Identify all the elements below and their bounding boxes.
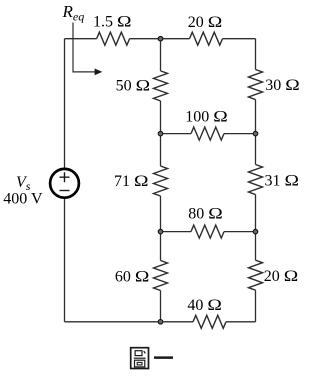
svg-text:80 Ω: 80 Ω — [188, 206, 223, 223]
node E dot — [253, 229, 258, 234]
wire middle branch to node D — [160, 196, 162, 232]
wire middle branch upper — [160, 39, 162, 71]
wire top right to corner — [223, 38, 256, 40]
node B dot — [158, 131, 163, 136]
svg-text:71 Ω: 71 Ω — [114, 173, 149, 190]
wire right branch node C down — [255, 134, 257, 165]
resistor 50 ohm — [154, 71, 168, 101]
svg-text:400 V: 400 V — [3, 191, 43, 208]
wire middle branch to bottom node F — [160, 291, 162, 322]
caption: character yi (one) — [154, 356, 173, 359]
resistor 60 ohm — [154, 261, 168, 291]
wire middle branch node B down — [160, 134, 162, 166]
wire row2 left segment — [161, 133, 192, 135]
resistor 31 ohm — [249, 165, 263, 195]
resistor 30 ohm — [249, 70, 263, 100]
wire top from left corner to node A — [65, 38, 97, 40]
resistor 80 ohm — [191, 225, 224, 238]
resistor 100 ohm — [191, 127, 224, 140]
svg-text:100 Ω: 100 Ω — [185, 108, 228, 125]
wire right branch to bottom corner — [255, 290, 257, 322]
node F dot — [158, 320, 163, 325]
wire node A segment — [130, 38, 190, 40]
wire bottom left segment — [65, 321, 194, 323]
svg-text:20 Ω: 20 Ω — [188, 14, 223, 31]
svg-text:20 Ω: 20 Ω — [264, 268, 299, 285]
voltage source Vs circle — [50, 169, 79, 198]
wire row3 left segment — [161, 231, 192, 233]
wire right branch to node E — [255, 195, 257, 232]
wire right branch node E down — [255, 232, 257, 261]
resistor 71 ohm — [154, 166, 168, 196]
wire row2 right segment — [224, 133, 256, 135]
svg-text:Req: Req — [62, 2, 85, 24]
minus sign — [60, 190, 70, 192]
svg-text:50 Ω: 50 Ω — [116, 77, 151, 94]
wire middle branch between 50 and node B — [160, 101, 162, 134]
resistor 40 ohm — [193, 315, 226, 328]
resistor 20 ohm top — [190, 32, 223, 45]
wire bottom right segment — [226, 321, 256, 323]
wire right branch upper — [255, 39, 257, 70]
plus sign — [60, 172, 70, 182]
wire row3 right segment — [224, 231, 256, 233]
caption: character tu (figure) — [131, 348, 149, 369]
svg-text:30 Ω: 30 Ω — [265, 77, 300, 94]
node A dot — [158, 36, 163, 41]
svg-text:40 Ω: 40 Ω — [187, 297, 222, 314]
node D dot — [158, 229, 163, 234]
svg-text:31 Ω: 31 Ω — [265, 173, 300, 190]
wire middle branch node D down — [160, 232, 162, 261]
Req arrowhead — [95, 69, 103, 76]
wire left vertical (source branch) — [64, 39, 66, 322]
wire right branch to node C — [255, 100, 257, 134]
node C dot — [253, 131, 258, 136]
resistor 20 ohm right — [249, 260, 263, 290]
Req arrow — [73, 23, 95, 72]
svg-text:1.5 Ω: 1.5 Ω — [93, 14, 132, 31]
svg-text:60 Ω: 60 Ω — [115, 268, 150, 285]
resistor 1.5 ohm — [97, 32, 130, 45]
